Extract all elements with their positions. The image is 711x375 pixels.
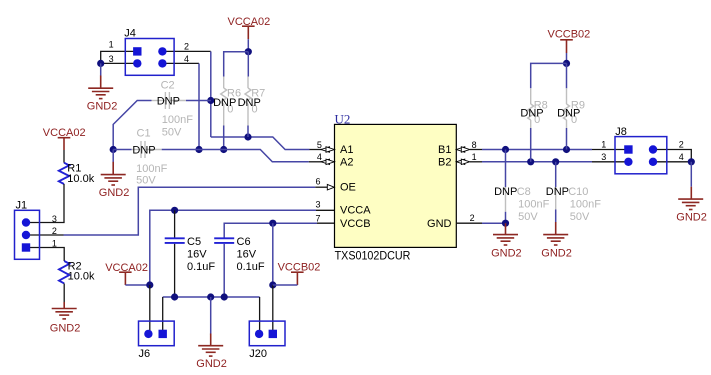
svg-text:DNP: DNP	[213, 97, 236, 109]
wire OE net	[64, 187, 316, 235]
wire C2 left diagonal to gnd vertical	[113, 101, 151, 150]
svg-text:J20: J20	[249, 348, 267, 360]
ground GND2 (C1/C2)	[99, 162, 130, 199]
svg-text:4: 4	[679, 152, 684, 162]
wire gnd stem	[112, 150, 114, 163]
wire R9 bottom	[566, 128, 568, 150]
node C10 top	[552, 158, 559, 165]
wire B1 black stub	[470, 149, 482, 151]
resistor R9 (DNP)	[564, 88, 585, 128]
wire J8 gnd stem	[690, 162, 692, 187]
svg-text:C10: C10	[568, 186, 588, 198]
wire VCCB02 to R8 top	[531, 63, 567, 88]
svg-text:3: 3	[52, 214, 57, 224]
connector J4	[109, 28, 189, 76]
svg-text:GND2: GND2	[676, 211, 707, 223]
pin arrow B1 bidirectional	[456, 147, 470, 152]
svg-text:50V: 50V	[518, 211, 538, 223]
wire J1 pin1 stub	[26, 248, 64, 262]
svg-text:2: 2	[52, 226, 57, 236]
wire J1 pin2 stub	[26, 234, 64, 236]
svg-text:DNP: DNP	[520, 107, 543, 119]
svg-text:1: 1	[52, 238, 57, 248]
pin arrow A2 bidirectional	[321, 159, 335, 164]
svg-text:1: 1	[601, 140, 606, 150]
svg-text:100nF: 100nF	[518, 199, 549, 211]
wire R1 top lead	[63, 150, 65, 163]
wire VCCA02 to R7 top	[247, 52, 249, 77]
resistor R2	[59, 261, 95, 284]
wire R2 bottom	[63, 284, 65, 304]
svg-text:VCCB: VCCB	[340, 218, 371, 230]
node R7 bottom junction	[244, 133, 251, 140]
svg-text:7: 7	[316, 214, 321, 224]
svg-text:50V: 50V	[570, 211, 590, 223]
wire U2 GND to C8	[482, 222, 506, 224]
IC U2	[335, 111, 457, 262]
svg-text:5: 5	[317, 140, 322, 150]
svg-text:16V: 16V	[237, 249, 257, 261]
wire gnd stem (bottom)	[210, 297, 212, 335]
node R9 bottom	[563, 146, 570, 153]
wire VCCB row	[224, 223, 317, 238]
wire J4 pin2 net vertical (A1 net)	[210, 51, 212, 137]
wire C8 bottom	[505, 212, 507, 223]
wire A1 black stub	[310, 149, 323, 151]
svg-text:6: 6	[316, 177, 321, 187]
svg-text:C8: C8	[517, 186, 531, 198]
wire B2 row	[482, 161, 592, 163]
wire VCCA02 tap	[125, 284, 149, 286]
pin arrow OE input	[327, 184, 334, 190]
wire VCCB02 stem	[566, 53, 568, 63]
wire J20 right pin lead	[272, 285, 274, 334]
wire J4 pin2 stub	[162, 50, 210, 52]
svg-text:B1: B1	[438, 144, 451, 156]
svg-text:DNP: DNP	[132, 144, 155, 156]
wire VCCB02 to R9 top	[566, 63, 568, 88]
svg-text:J4: J4	[124, 28, 136, 40]
capacitor C1 (DNP)	[132, 127, 168, 186]
svg-text:3: 3	[109, 54, 114, 64]
node VCCB02 row junction	[269, 220, 276, 227]
capacitor C8 (DNP)	[506, 150, 550, 223]
svg-text:10.0k: 10.0k	[67, 173, 94, 185]
resistor R1	[59, 162, 95, 185]
svg-text:VCCB02: VCCB02	[548, 29, 591, 41]
connector J1	[15, 200, 57, 260]
svg-text:3: 3	[601, 152, 606, 162]
wire VCCA black stub	[316, 209, 335, 211]
wire J8 pin4	[653, 161, 691, 163]
node VCCB02 tap junction	[269, 281, 276, 288]
svg-text:0.1uF: 0.1uF	[237, 261, 265, 273]
svg-text:50V: 50V	[162, 127, 182, 139]
wire A2 row	[162, 150, 309, 162]
wire J20 circle pin lead	[259, 297, 261, 334]
svg-text:DNP: DNP	[557, 107, 580, 119]
svg-text:DNP: DNP	[546, 186, 569, 198]
svg-text:1: 1	[109, 40, 114, 50]
wire U2 GND stub	[456, 222, 482, 224]
power VCCA02 (J6)	[105, 262, 148, 285]
connector J20	[249, 321, 285, 360]
ground GND2 (C8)	[491, 223, 522, 259]
node C8 top	[502, 146, 509, 153]
svg-text:C2: C2	[161, 79, 175, 91]
wire B2 black stub	[470, 161, 482, 163]
svg-text:VCCA: VCCA	[340, 205, 371, 217]
wire J4 pin1 stub	[101, 51, 138, 63]
connector J6	[139, 321, 175, 360]
svg-text:A1: A1	[340, 144, 353, 156]
wire gnd stem	[100, 63, 102, 76]
power VCCA02 (R1)	[43, 127, 86, 150]
resistor R6 (DNP)	[221, 77, 241, 126]
node A2/C1 row junction	[195, 146, 202, 153]
wire B1 row	[482, 149, 592, 151]
ground GND2 (R2)	[50, 302, 81, 335]
ground GND2 (J4)	[87, 76, 118, 113]
svg-text:C6: C6	[237, 236, 251, 248]
svg-text:GND2: GND2	[99, 187, 130, 199]
wire VCCA02 to R6 top	[224, 52, 249, 77]
svg-text:8: 8	[472, 140, 477, 150]
svg-text:GND: GND	[427, 218, 452, 230]
wire C10 bottom	[555, 210, 557, 223]
wire R1 bottom to J1 pin3	[26, 184, 64, 223]
wire C1 left	[113, 149, 131, 151]
wire VCCB02 tap	[273, 284, 298, 286]
svg-text:100nF: 100nF	[136, 163, 167, 175]
wire J6 square pin lead	[162, 297, 164, 334]
svg-text:J6: J6	[139, 348, 151, 360]
wire B1 J8 stub	[592, 149, 628, 151]
svg-text:TXS0102DCUR: TXS0102DCUR	[335, 248, 411, 262]
resistor R7 (DNP)	[245, 77, 265, 126]
svg-text:C5: C5	[187, 236, 201, 248]
wire J4 pin3 stub	[101, 62, 138, 64]
svg-text:J8: J8	[615, 126, 627, 138]
svg-text:2: 2	[679, 140, 684, 150]
capacitor C5	[165, 210, 216, 297]
wire OE black stub	[315, 186, 327, 188]
node C2 junction	[207, 97, 214, 104]
svg-text:16V: 16V	[187, 249, 207, 261]
node R8 bottom	[527, 158, 534, 165]
node VCCB02 junction	[563, 60, 570, 67]
ground GND2 (C10)	[541, 222, 572, 259]
node R6 on A2 row	[220, 146, 227, 153]
svg-text:100nF: 100nF	[570, 199, 601, 211]
wire VCCB02/J20 vertical	[272, 223, 274, 285]
wire A2 black stub	[309, 161, 322, 163]
wire R8 bottom	[530, 128, 532, 162]
wire C2 right to A1 vertical	[186, 100, 211, 102]
svg-text:GND2: GND2	[50, 323, 81, 335]
wire J4 pin4 vertical (A2 net)	[198, 63, 200, 149]
node GND junction	[502, 220, 509, 227]
wire VCCB black stub	[317, 222, 335, 224]
svg-text:0.1uF: 0.1uF	[187, 261, 215, 273]
svg-text:GND2: GND2	[541, 247, 572, 259]
wire A1 net to U2	[211, 137, 310, 150]
svg-text:1: 1	[472, 152, 477, 162]
wire B2 J8 stub	[592, 161, 628, 163]
svg-text:GND2: GND2	[196, 358, 227, 370]
capacitor C6	[214, 236, 265, 297]
svg-text:2: 2	[184, 42, 189, 52]
node C1/C2 gnd junction	[110, 146, 117, 153]
svg-text:U2: U2	[335, 111, 351, 126]
wire gnd row	[163, 296, 260, 298]
connector J8	[601, 126, 684, 174]
svg-text:4: 4	[184, 54, 189, 64]
node C6 bottom	[221, 293, 228, 300]
power VCCA02 (top)	[228, 16, 271, 39]
svg-text:2: 2	[470, 213, 475, 223]
power VCCB02 (top right)	[548, 29, 591, 54]
capacitor C10 (DNP)	[556, 162, 602, 223]
wire VCCA02 to junction	[247, 39, 249, 52]
svg-text:DNP: DNP	[157, 95, 180, 107]
svg-text:J1: J1	[16, 200, 28, 212]
svg-text:50V: 50V	[136, 175, 156, 187]
svg-text:100nF: 100nF	[162, 114, 193, 126]
svg-text:4: 4	[317, 152, 322, 162]
ground GND2 (bottom middle)	[196, 334, 227, 371]
pin arrow B2 bidirectional	[456, 159, 470, 164]
resistor R8 (DNP)	[528, 88, 548, 128]
svg-text:GND2: GND2	[87, 101, 118, 113]
svg-text:A2: A2	[340, 156, 353, 168]
node VCCA02 tap junction	[146, 281, 153, 288]
wire J6 left pin lead	[149, 285, 151, 334]
power VCCB02 (J20)	[278, 262, 321, 285]
wire J8 pin2	[653, 150, 691, 162]
svg-text:3: 3	[316, 200, 321, 210]
svg-text:DNP: DNP	[494, 186, 517, 198]
node VCCA02 junction	[245, 48, 252, 55]
node J8 gnd junction	[688, 158, 695, 165]
wire VCCA row	[150, 210, 316, 285]
node gnd stem	[207, 293, 214, 300]
capacitor C2 (DNP)	[152, 79, 194, 138]
svg-text:C1: C1	[137, 127, 151, 139]
node J4 gnd junction	[97, 60, 104, 67]
svg-text:OE: OE	[340, 182, 356, 194]
svg-text:DNP: DNP	[238, 97, 261, 109]
wire R6 bottom	[223, 126, 225, 150]
svg-text:B2: B2	[438, 156, 451, 168]
node C5 top junction	[171, 207, 178, 214]
svg-text:GND2: GND2	[491, 247, 522, 259]
pin arrow A1 bidirectional	[321, 147, 335, 152]
svg-text:10.0k: 10.0k	[68, 271, 95, 283]
node C5 bottom	[171, 293, 178, 300]
wire J4 pin4 stub	[162, 62, 199, 64]
ground GND2 (J8)	[676, 187, 707, 224]
wire R7 bottom	[247, 126, 249, 138]
